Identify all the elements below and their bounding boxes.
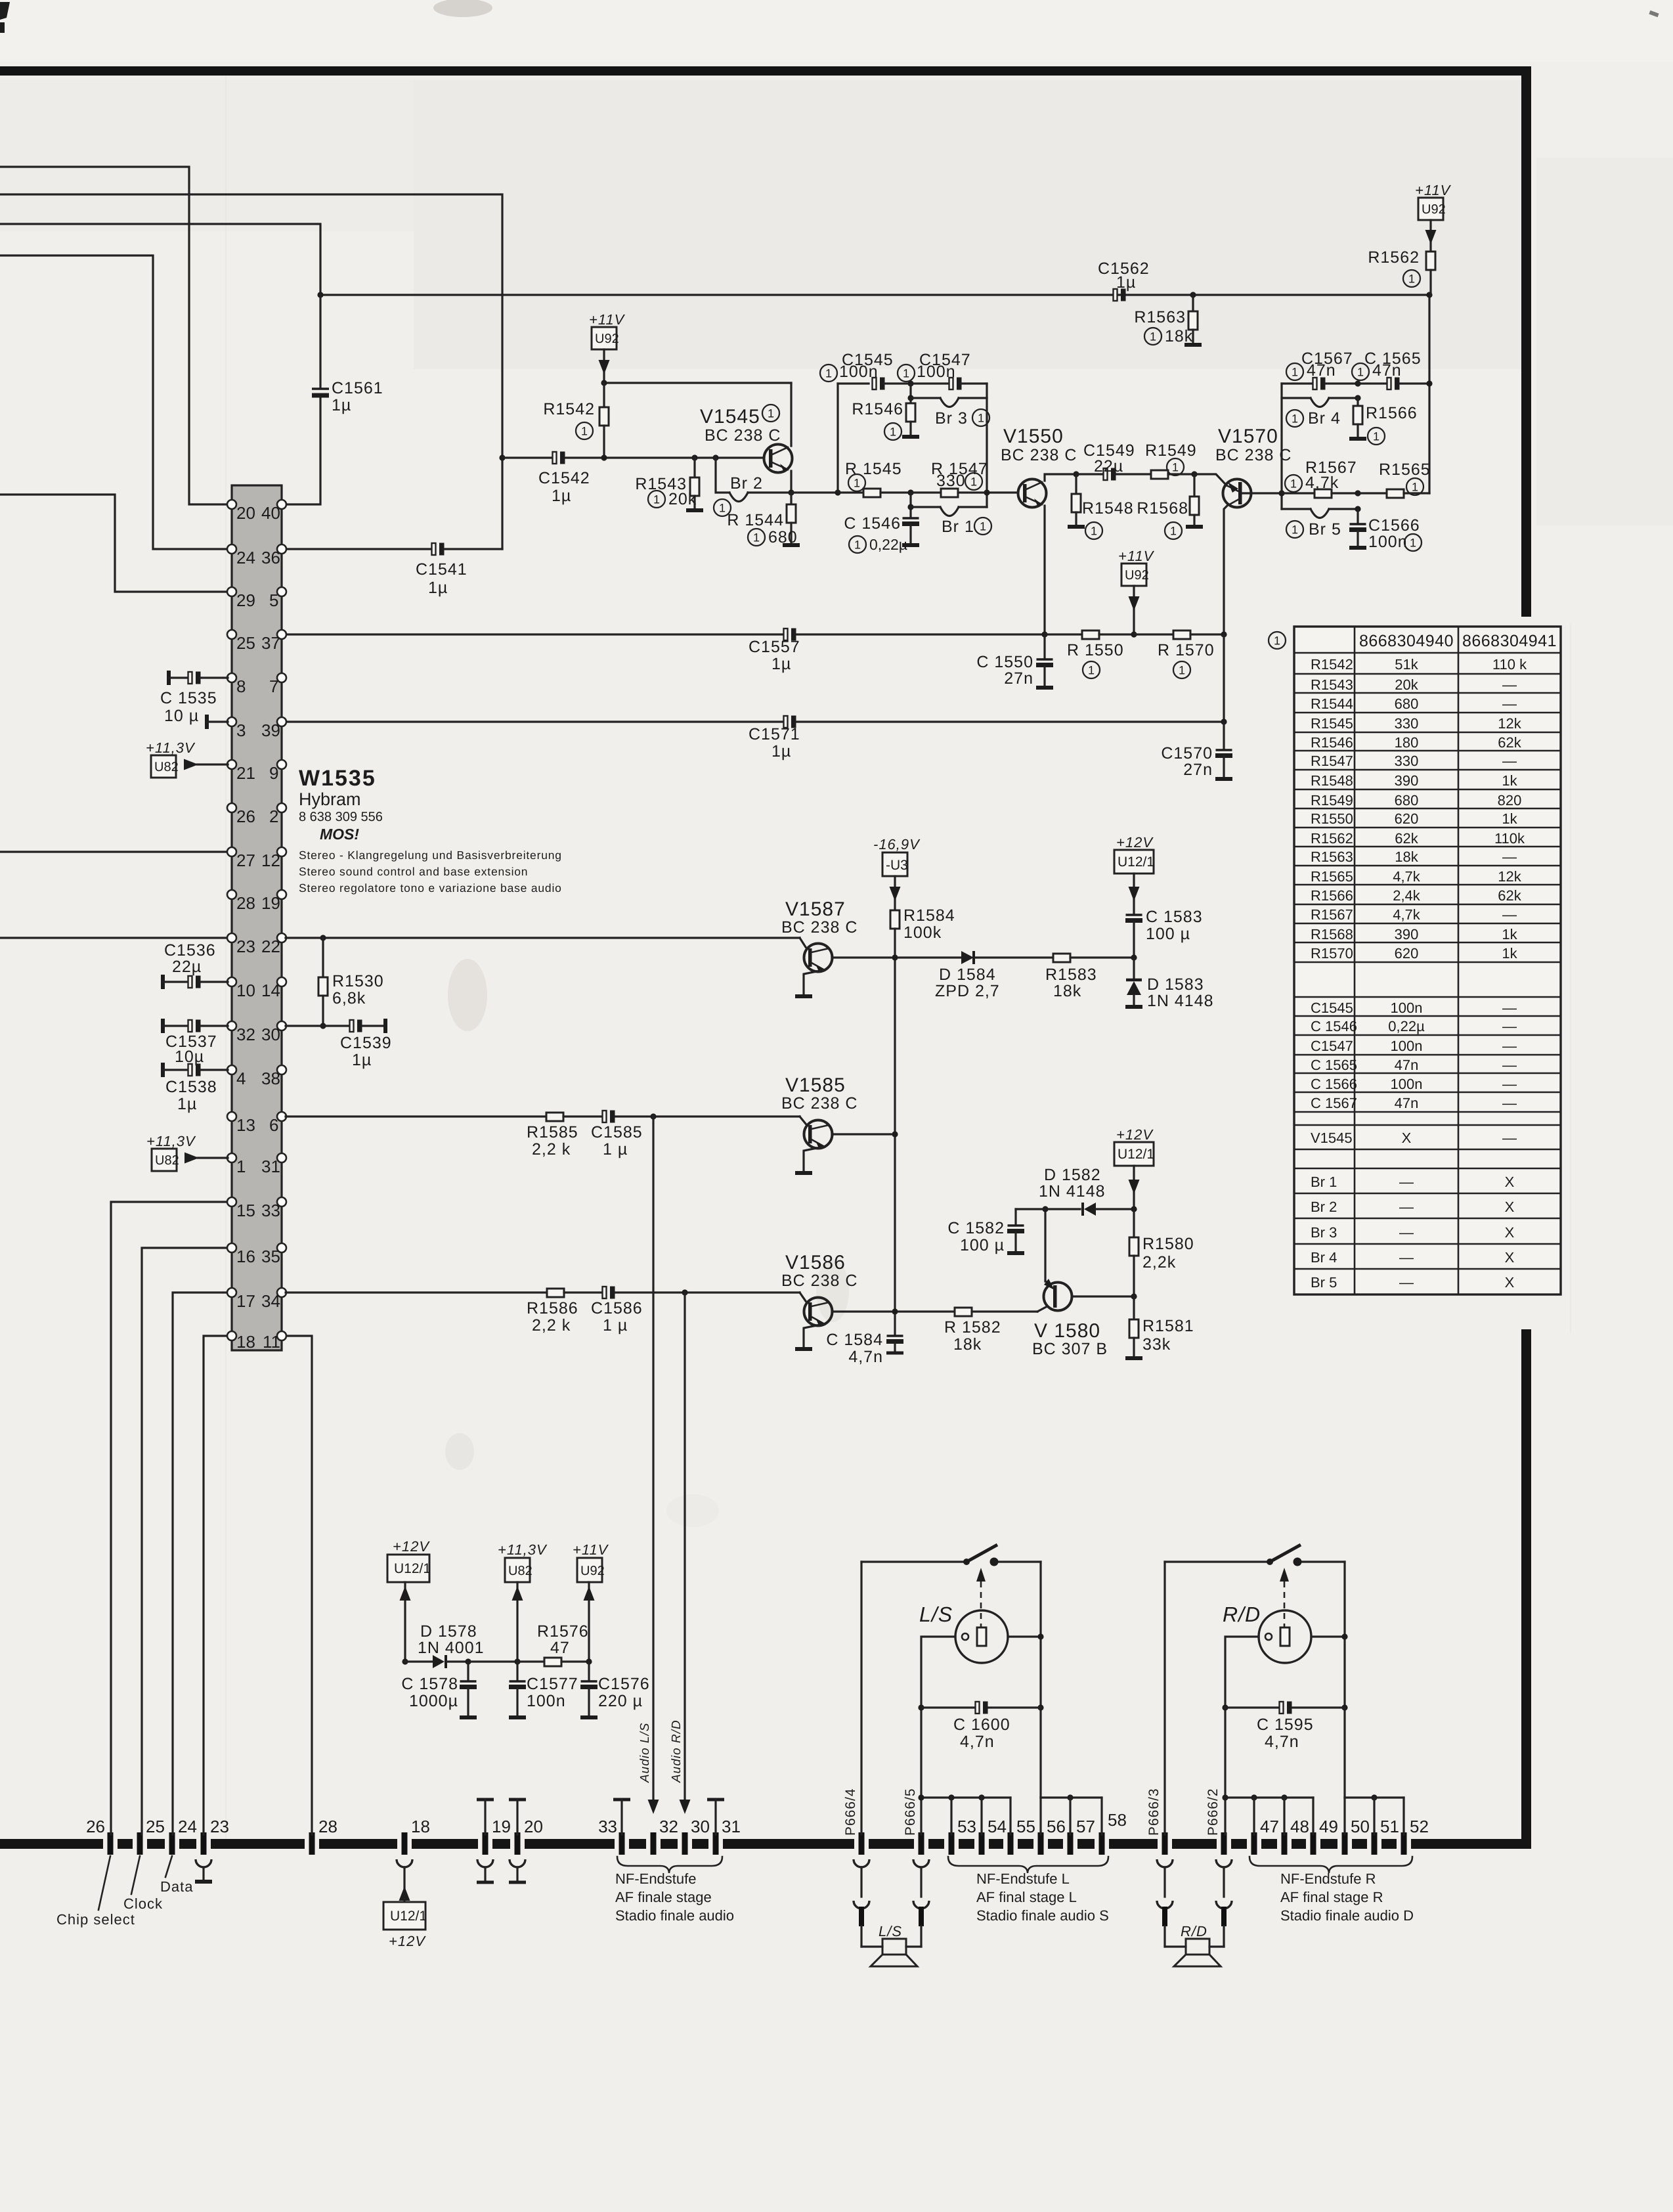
svg-text:AF finale stage: AF finale stage xyxy=(615,1889,712,1905)
SECTION: bottom bus bar xyxy=(0,1788,1531,1855)
resistor R1565 xyxy=(1358,492,1387,494)
svg-text:R 1570: R 1570 xyxy=(1158,641,1215,659)
svg-text:Br 4: Br 4 xyxy=(1311,1249,1337,1266)
svg-text:2,2 k: 2,2 k xyxy=(532,1140,571,1159)
svg-text:4,7k: 4,7k xyxy=(1393,868,1421,885)
svg-text:R1530: R1530 xyxy=(332,972,384,990)
wire C1557 to emitter node xyxy=(796,633,1045,635)
transistor V1580 xyxy=(1032,1209,1134,1358)
svg-text:+11,3V: +11,3V xyxy=(146,1133,196,1149)
svg-text:Hybram: Hybram xyxy=(299,789,361,809)
svg-text:V1586: V1586 xyxy=(785,1252,846,1273)
P666/3 plug chain xyxy=(1157,1859,1173,1867)
svg-text:C1586: C1586 xyxy=(591,1299,643,1317)
node R1530 bottom xyxy=(320,1023,326,1029)
capacitor C1583 xyxy=(1125,915,1142,921)
svg-text:C 1535: C 1535 xyxy=(160,689,217,707)
wire pin 37 long net to V1550 emitter node xyxy=(286,633,784,635)
connector pin 19 xyxy=(485,1832,486,1855)
svg-text:57: 57 xyxy=(1076,1817,1095,1836)
svg-text:+11V: +11V xyxy=(1118,548,1155,564)
bridge Br5 xyxy=(1282,508,1311,510)
loudspeaker R/D bottom xyxy=(1165,1945,1186,1947)
svg-text:32: 32 xyxy=(659,1817,678,1836)
svg-text:C1545: C1545 xyxy=(1311,1000,1353,1016)
svg-text:R1565: R1565 xyxy=(1379,460,1431,479)
wire pin 23 from left edge xyxy=(0,937,228,939)
connector pin 50 xyxy=(1344,1832,1345,1855)
svg-text:AF final stage L: AF final stage L xyxy=(976,1889,1077,1905)
node Audio R/D tap xyxy=(682,1289,687,1295)
svg-text:U92: U92 xyxy=(1125,568,1149,583)
svg-text:28: 28 xyxy=(236,893,255,913)
svg-text:C1585: C1585 xyxy=(591,1123,643,1141)
svg-text:—: — xyxy=(1502,1057,1517,1073)
wire switch top rail L/S xyxy=(861,1560,964,1562)
capacitor C1549 xyxy=(1076,473,1104,475)
connector pin 57 xyxy=(1070,1832,1071,1855)
svg-text:24: 24 xyxy=(236,548,255,567)
resistor R1582 xyxy=(899,1310,955,1312)
svg-text:BC 238 C: BC 238 C xyxy=(705,426,781,445)
connector pin 47 xyxy=(1253,1832,1255,1855)
svg-text:NF-Endstufe: NF-Endstufe xyxy=(615,1870,697,1887)
svg-text:R1566: R1566 xyxy=(1366,404,1418,422)
svg-text:—: — xyxy=(1399,1174,1414,1190)
svg-text:1N 4148: 1N 4148 xyxy=(1039,1182,1106,1201)
svg-text:-16,9V: -16,9V xyxy=(873,836,921,852)
svg-text:8668304941: 8668304941 xyxy=(1462,632,1557,650)
svg-text:Stereo sound control and base: Stereo sound control and base extension xyxy=(299,865,528,878)
svg-text:21: 21 xyxy=(236,763,255,783)
svg-text:V1545: V1545 xyxy=(1311,1130,1353,1146)
resistor R1544 xyxy=(788,489,794,495)
svg-text:R1547: R1547 xyxy=(1311,753,1353,769)
connector pin 52 xyxy=(1403,1832,1404,1855)
svg-text:—: — xyxy=(1399,1199,1414,1215)
wire pin 15 down to bus pin 26 xyxy=(111,1202,228,1834)
svg-text:R 1550: R 1550 xyxy=(1067,641,1124,659)
capacitor C1541 xyxy=(432,543,445,556)
svg-text:9: 9 xyxy=(269,763,278,783)
svg-text:V1570: V1570 xyxy=(1218,426,1278,447)
svg-text:P666/3: P666/3 xyxy=(1146,1788,1162,1836)
svg-text:R1562: R1562 xyxy=(1368,248,1420,267)
svg-text:680: 680 xyxy=(1395,696,1419,712)
svg-text:R1570: R1570 xyxy=(1311,945,1353,962)
svg-text:C1541: C1541 xyxy=(416,560,467,579)
svg-text:C1577: C1577 xyxy=(527,1675,578,1693)
svg-text:100n: 100n xyxy=(1391,1000,1423,1016)
wire long top horizontal net to R1562 xyxy=(320,294,1429,296)
svg-text:—: — xyxy=(1502,849,1517,865)
svg-text:D 1583: D 1583 xyxy=(1147,975,1204,994)
svg-text:NF-Endstufe L: NF-Endstufe L xyxy=(976,1870,1070,1887)
bridge Br2 xyxy=(712,454,718,460)
svg-text:18k: 18k xyxy=(1053,982,1081,1000)
connector pin 51 xyxy=(1374,1832,1375,1855)
capacitor C1537 on pin 32 xyxy=(162,1019,163,1033)
svg-text:R1568: R1568 xyxy=(1137,499,1188,518)
svg-text:Clock: Clock xyxy=(123,1895,163,1912)
pin circles left side xyxy=(227,500,236,509)
resistor R1547 xyxy=(907,489,913,495)
wire pin 11 down to bus pin 28 xyxy=(286,1336,312,1834)
svg-text:4,7n: 4,7n xyxy=(960,1733,995,1751)
svg-text:8: 8 xyxy=(236,676,246,696)
svg-text:—: — xyxy=(1502,1038,1517,1054)
svg-text:C 1565: C 1565 xyxy=(1311,1057,1357,1073)
connector pin 25 xyxy=(139,1832,141,1855)
svg-text:19: 19 xyxy=(261,893,280,913)
svg-text:C 1595: C 1595 xyxy=(1257,1715,1314,1734)
svg-text:39: 39 xyxy=(261,720,280,740)
svg-text:C1539: C1539 xyxy=(340,1034,392,1052)
wire pin 17 down to bus pin 24 xyxy=(173,1293,228,1834)
transistor V1570 xyxy=(1215,426,1292,634)
svg-text:180: 180 xyxy=(1395,734,1419,751)
wire speaker left to P666/2 riser xyxy=(1225,1637,1259,1834)
svg-text:AF final stage R: AF final stage R xyxy=(1280,1889,1383,1905)
svg-text:—: — xyxy=(1502,1018,1517,1034)
wire pin 18 down to bus pin 23 xyxy=(204,1336,228,1834)
svg-text:—: — xyxy=(1502,676,1517,693)
connector pin 20 xyxy=(517,1832,518,1855)
svg-text:X: X xyxy=(1402,1130,1412,1146)
connector P666/3 xyxy=(1164,1832,1165,1855)
wire pin 36 to C1541 xyxy=(286,548,433,550)
svg-text:Br 5: Br 5 xyxy=(1311,1274,1337,1291)
resistor R1566 xyxy=(1357,398,1358,406)
wire riser junction to C1542 xyxy=(502,456,553,458)
svg-text:12k: 12k xyxy=(1498,715,1521,732)
svg-text:27: 27 xyxy=(236,851,255,870)
svg-text:330: 330 xyxy=(1395,715,1419,732)
wire emitter node down to pin39 net xyxy=(1223,634,1225,722)
svg-text:2,2 k: 2,2 k xyxy=(532,1316,571,1335)
svg-text:BC 238 C: BC 238 C xyxy=(781,1094,858,1113)
svg-text:Br 5: Br 5 xyxy=(1309,520,1341,539)
svg-text:—: — xyxy=(1502,906,1517,923)
capacitor C1577 xyxy=(516,1662,518,1680)
svg-text:100k: 100k xyxy=(903,923,942,942)
svg-text:R1542: R1542 xyxy=(543,400,595,418)
svg-text:100 µ: 100 µ xyxy=(1146,925,1190,943)
svg-text:R1565: R1565 xyxy=(1311,868,1353,885)
svg-text:110 k: 110 k xyxy=(1492,656,1527,673)
capacitor C1562 on long net xyxy=(1114,289,1126,301)
hook below pin 19 with terminal xyxy=(477,1859,493,1867)
svg-text:X: X xyxy=(1505,1174,1515,1190)
svg-text:—: — xyxy=(1502,1000,1517,1016)
svg-text:330: 330 xyxy=(1395,753,1419,769)
svg-text:55: 55 xyxy=(1016,1817,1035,1836)
capacitor C1538 on pin 4 xyxy=(162,1063,163,1077)
svg-text:58: 58 xyxy=(1108,1810,1127,1830)
svg-text:Br 3: Br 3 xyxy=(1311,1224,1337,1241)
wire pin 30 to C1539 xyxy=(286,1025,350,1027)
feedback box V1570: left vertical xyxy=(1280,384,1282,509)
wire group node left: pins 53/54/55 xyxy=(921,1796,1010,1798)
svg-text:18k: 18k xyxy=(953,1335,982,1354)
connector pin 49 xyxy=(1313,1832,1314,1855)
resistor R1548 xyxy=(1073,471,1079,477)
svg-text:+12V: +12V xyxy=(1116,1126,1154,1143)
svg-text:3: 3 xyxy=(236,720,246,740)
svg-text:100 µ: 100 µ xyxy=(960,1236,1005,1254)
svg-text:820: 820 xyxy=(1498,792,1522,808)
wire group node right: pins 50/51/52 xyxy=(1345,1796,1404,1798)
brace NF-Endstufe group 1 xyxy=(617,1857,722,1873)
svg-text:R1542: R1542 xyxy=(1311,656,1353,673)
svg-text:U92: U92 xyxy=(580,1564,605,1578)
capacitor C1585 xyxy=(603,1111,615,1123)
capacitor C1542 xyxy=(553,452,565,464)
svg-text:D 1582: D 1582 xyxy=(1044,1166,1101,1184)
svg-text:32: 32 xyxy=(236,1025,255,1044)
transistor V1545 xyxy=(700,383,793,493)
resistor R1530 xyxy=(322,938,324,977)
svg-text:5: 5 xyxy=(269,590,278,610)
connector pin 48 xyxy=(1284,1832,1285,1855)
svg-text:20: 20 xyxy=(236,503,255,523)
svg-text:R1581: R1581 xyxy=(1142,1317,1194,1335)
svg-text:C1542: C1542 xyxy=(538,469,590,487)
terminal above bus pin 31 xyxy=(707,1798,724,1802)
P666/2 plug chain xyxy=(1216,1859,1232,1867)
terminal stub on pin 3 xyxy=(206,715,207,729)
svg-text:—: — xyxy=(1502,1130,1517,1146)
svg-text:V1545: V1545 xyxy=(700,406,760,428)
wire left-edge trunk 4 to pin 24 xyxy=(0,255,228,549)
capacitor C1600 xyxy=(918,1704,924,1710)
svg-text:100n: 100n xyxy=(1391,1038,1423,1054)
svg-text:34: 34 xyxy=(261,1291,280,1311)
svg-text:X: X xyxy=(1505,1249,1515,1266)
svg-text:22µ: 22µ xyxy=(1094,457,1123,476)
svg-text:33: 33 xyxy=(598,1817,617,1836)
capacitor C1570 xyxy=(1223,722,1225,749)
right riser L/S xyxy=(1039,1562,1041,1798)
node Audio L/S tap xyxy=(650,1113,656,1119)
svg-text:4,7k: 4,7k xyxy=(1393,906,1421,923)
resistor R1563 xyxy=(1190,292,1196,298)
svg-text:P666/4: P666/4 xyxy=(843,1788,858,1836)
svg-text:49: 49 xyxy=(1319,1817,1338,1836)
svg-text:2,4k: 2,4k xyxy=(1393,887,1421,904)
speaker R/D (driver symbol) xyxy=(1259,1610,1311,1663)
svg-text:36: 36 xyxy=(261,548,280,567)
svg-text:1k: 1k xyxy=(1502,810,1517,827)
capacitor C1576 xyxy=(588,1662,590,1680)
pin circles right side xyxy=(277,500,286,509)
svg-text:31: 31 xyxy=(722,1817,741,1836)
svg-text:R1584: R1584 xyxy=(903,906,955,925)
svg-text:4: 4 xyxy=(236,1069,246,1088)
svg-text:Chip select: Chip select xyxy=(56,1911,135,1928)
svg-text:8668304940: 8668304940 xyxy=(1359,632,1454,650)
svg-text:C1538: C1538 xyxy=(165,1078,217,1096)
svg-text:+11V: +11V xyxy=(589,311,626,328)
resistor R1543 xyxy=(691,454,697,460)
P666/5 plug chain xyxy=(913,1859,929,1867)
capacitor C1557 xyxy=(784,629,796,641)
connector pin 23 xyxy=(203,1832,204,1855)
leader line Data to pin 24 xyxy=(165,1856,172,1877)
transistor V1585 xyxy=(781,1074,891,1173)
svg-text:24: 24 xyxy=(178,1817,197,1836)
svg-text:C 1546: C 1546 xyxy=(1311,1018,1357,1034)
node junction on riser for C1542 branch xyxy=(499,454,505,460)
svg-text:R1576: R1576 xyxy=(537,1622,589,1641)
svg-text:4,7n: 4,7n xyxy=(1265,1733,1299,1751)
svg-text:—: — xyxy=(1502,1095,1517,1111)
resistor R1585 xyxy=(546,1113,563,1121)
svg-text:14: 14 xyxy=(261,981,280,1000)
svg-text:100n: 100n xyxy=(527,1692,566,1710)
svg-text:R1545: R1545 xyxy=(1311,715,1353,732)
hook below pin 20 with terminal xyxy=(510,1859,525,1867)
svg-text:P666/5: P666/5 xyxy=(903,1788,918,1836)
svg-text:18: 18 xyxy=(411,1817,430,1836)
svg-text:52: 52 xyxy=(1410,1817,1429,1836)
svg-text:390: 390 xyxy=(1395,772,1419,789)
svg-text:53: 53 xyxy=(957,1817,976,1836)
svg-text:Br 4: Br 4 xyxy=(1308,409,1341,428)
wire C1561 riser lower part to pin 40 xyxy=(319,295,321,387)
capacitor C1545 xyxy=(838,382,869,384)
connector pin 55 xyxy=(1010,1832,1011,1855)
capacitor C1547 xyxy=(911,382,947,384)
loudspeaker L/S bottom xyxy=(861,1945,882,1947)
svg-text:W1535: W1535 xyxy=(299,766,376,791)
svg-text:R1566: R1566 xyxy=(1311,887,1353,904)
diode D1578 1N4001 xyxy=(433,1655,445,1668)
leader line Chip select to pin 26 xyxy=(98,1856,110,1910)
svg-text:Stadio finale audio: Stadio finale audio xyxy=(615,1907,734,1924)
feedback box V1545-V1550: left vertical xyxy=(835,489,840,495)
svg-text:U12/1: U12/1 xyxy=(1118,854,1154,870)
svg-text:+11V: +11V xyxy=(1415,182,1452,198)
wire C1541 to riser xyxy=(445,548,502,550)
svg-text:18: 18 xyxy=(236,1332,255,1352)
svg-text:26: 26 xyxy=(236,807,255,826)
svg-text:22: 22 xyxy=(261,937,280,956)
P666/4 riser xyxy=(860,1562,862,1834)
node junction C1561 riser xyxy=(317,292,323,298)
svg-text:P666/2: P666/2 xyxy=(1206,1788,1221,1836)
resistor R1550 xyxy=(1045,633,1082,635)
svg-text:X: X xyxy=(1505,1274,1515,1291)
svg-text:18k: 18k xyxy=(1395,849,1418,865)
top border bar xyxy=(0,66,1531,76)
capacitor C1566 xyxy=(1357,509,1358,523)
transistor V1550 xyxy=(1001,426,1077,634)
svg-text:1µ: 1µ xyxy=(177,1095,197,1113)
transistor V1587 xyxy=(781,898,891,996)
pin number labels xyxy=(236,503,280,1352)
main row: resistor R1567 xyxy=(1282,492,1314,494)
svg-text:25: 25 xyxy=(146,1817,165,1836)
svg-text:10 µ: 10 µ xyxy=(164,707,199,725)
svg-text:11: 11 xyxy=(263,1332,280,1352)
svg-text:1k: 1k xyxy=(1502,945,1517,962)
svg-text:12: 12 xyxy=(261,851,280,870)
hook below pin 23 with ground xyxy=(196,1859,211,1867)
wire C1571 to C1570 node xyxy=(796,720,1224,722)
svg-text:C 1578: C 1578 xyxy=(401,1675,458,1693)
svg-text:18k: 18k xyxy=(1165,327,1193,345)
svg-text:C 1600: C 1600 xyxy=(953,1715,1010,1734)
svg-text:X: X xyxy=(1505,1199,1515,1215)
svg-text:R1563: R1563 xyxy=(1311,849,1353,865)
svg-text:D 1578: D 1578 xyxy=(420,1622,477,1641)
svg-text:U12/1: U12/1 xyxy=(394,1561,431,1576)
svg-text:19: 19 xyxy=(492,1817,511,1836)
connector pin 33 xyxy=(621,1832,622,1855)
svg-text:C1561: C1561 xyxy=(332,379,383,397)
diode D1582 1N4148 xyxy=(1042,1206,1048,1212)
wire left-edge trunk 2 to C1541/pin 36 riser xyxy=(0,194,502,549)
svg-text:R1543: R1543 xyxy=(1311,676,1353,693)
svg-text:R1568: R1568 xyxy=(1311,926,1353,942)
svg-text:680: 680 xyxy=(768,528,798,546)
wire Audio L/S vertical xyxy=(652,1117,654,1805)
svg-text:L/S: L/S xyxy=(879,1923,902,1939)
svg-text:390: 390 xyxy=(1395,926,1419,942)
svg-text:U82: U82 xyxy=(155,1153,179,1168)
svg-text:C 1567: C 1567 xyxy=(1311,1095,1357,1111)
brace NF-Endstufe R xyxy=(1249,1857,1412,1873)
svg-text:V 1580: V 1580 xyxy=(1034,1320,1100,1342)
svg-text:620: 620 xyxy=(1395,945,1419,962)
feedback box right vertical xyxy=(986,384,988,507)
svg-text:R1567: R1567 xyxy=(1311,906,1353,923)
svg-text:Stereo regolatore tono e varia: Stereo regolatore tono e variazione base… xyxy=(299,881,562,895)
svg-text:1N 4148: 1N 4148 xyxy=(1147,992,1214,1010)
hook below pin 18 with supply U12/1 xyxy=(397,1859,412,1867)
svg-text:U82: U82 xyxy=(508,1564,532,1578)
svg-text:ZPD 2,7: ZPD 2,7 xyxy=(935,982,1000,1000)
svg-text:47: 47 xyxy=(1260,1817,1279,1836)
svg-text:110k: 110k xyxy=(1494,830,1525,847)
connector pin 56 xyxy=(1040,1832,1041,1855)
svg-text:13: 13 xyxy=(236,1115,255,1135)
svg-text:1000µ: 1000µ xyxy=(409,1692,458,1710)
svg-text:51k: 51k xyxy=(1395,656,1418,673)
svg-text:V1587: V1587 xyxy=(785,898,846,920)
svg-text:—: — xyxy=(1502,753,1517,769)
wire pin 22 to V1587 base xyxy=(286,937,800,939)
svg-text:2: 2 xyxy=(269,807,278,826)
svg-text:R1580: R1580 xyxy=(1142,1235,1194,1253)
wire pin 39 long net to C1570 node xyxy=(286,720,784,722)
corner scan mark top-left xyxy=(0,2,10,20)
connector pin 54 xyxy=(981,1832,982,1855)
svg-text:R1585: R1585 xyxy=(527,1123,578,1141)
bridge Br3 xyxy=(907,395,913,401)
svg-text:38: 38 xyxy=(261,1069,280,1088)
brace NF-Endstufe L xyxy=(948,1857,1108,1873)
svg-text:1 µ: 1 µ xyxy=(603,1316,628,1335)
transistor V1586 xyxy=(781,1252,891,1349)
svg-text:Stadio finale audio S: Stadio finale audio S xyxy=(976,1907,1109,1924)
supply distribution wire with D1578/R1576 xyxy=(402,1658,408,1664)
dashed actuator link R/D xyxy=(1284,1571,1286,1627)
svg-text:Audio L/S: Audio L/S xyxy=(638,1723,652,1783)
svg-text:7: 7 xyxy=(269,676,278,696)
capacitor C1578 electrolytic xyxy=(467,1662,469,1680)
